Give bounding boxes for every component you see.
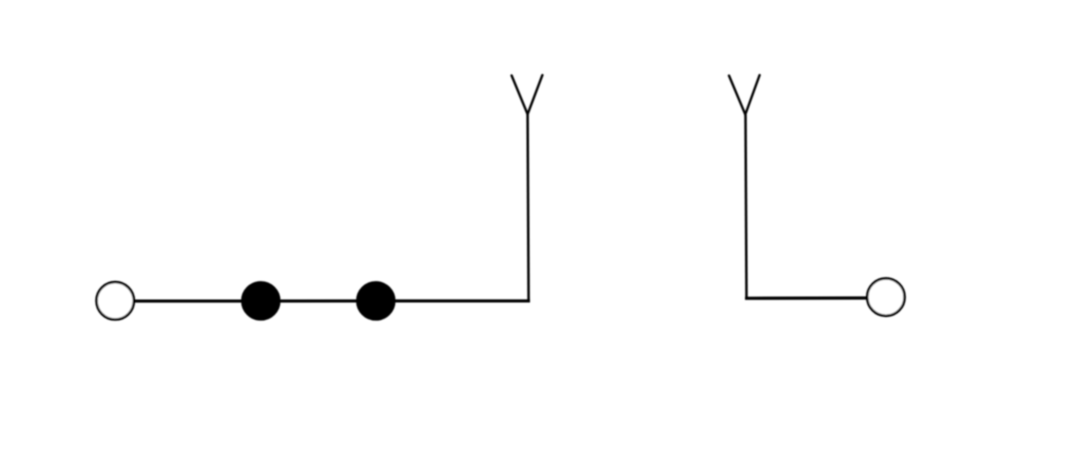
terminal T1 (open circle, left) (97, 282, 134, 319)
wire corner to terminal T2 (horizontal, right) (745, 296, 867, 299)
wire T1 to corner (horizontal, left) (134, 299, 530, 302)
antenna A1 (Y symbol, left) (512, 75, 543, 114)
junction dot J2 (357, 282, 394, 319)
terminal T2 (open circle, right) (867, 278, 904, 315)
antenna A2 (Y symbol, right) (729, 75, 760, 114)
junction dot J1 (242, 282, 279, 319)
wire corner to antenna A1 (vertical, left) (528, 114, 529, 301)
wire antenna A2 to corner (vertical, right) (746, 115, 747, 299)
